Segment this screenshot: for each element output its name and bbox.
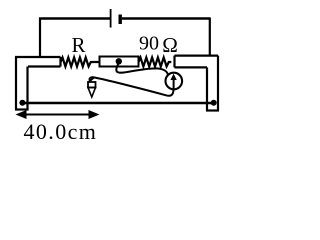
terminal dot right [211,100,217,106]
svg-text:90Ω: 90Ω [139,33,178,58]
junction dot on middle strip [116,58,122,64]
wire jockey to galvanometer [90,77,174,96]
resistor R zigzag [61,58,100,67]
svg-text:40.0cm: 40.0cm [24,119,98,144]
galvanometer arrow [173,78,175,89]
resistor 90 ohm zigzag [139,58,172,67]
dimension arrow 40.0cm [16,110,100,119]
slide wire [22,102,214,104]
galvanometer G [166,73,183,90]
wire top right segment [122,17,210,20]
wire right battery drop [209,18,211,57]
wire dot to galvanometer [116,64,168,76]
left end bracket [15,57,29,110]
right end bracket [206,56,219,111]
wire top left segment [39,17,110,20]
middle strip box [100,57,139,67]
terminal dot left [19,100,25,106]
left copper strip (gap G1) [15,57,61,67]
battery cell [111,9,121,28]
jockey [88,78,96,98]
svg-text:R: R [72,33,86,57]
right copper strip [175,56,219,68]
wire left battery drop [39,18,41,58]
